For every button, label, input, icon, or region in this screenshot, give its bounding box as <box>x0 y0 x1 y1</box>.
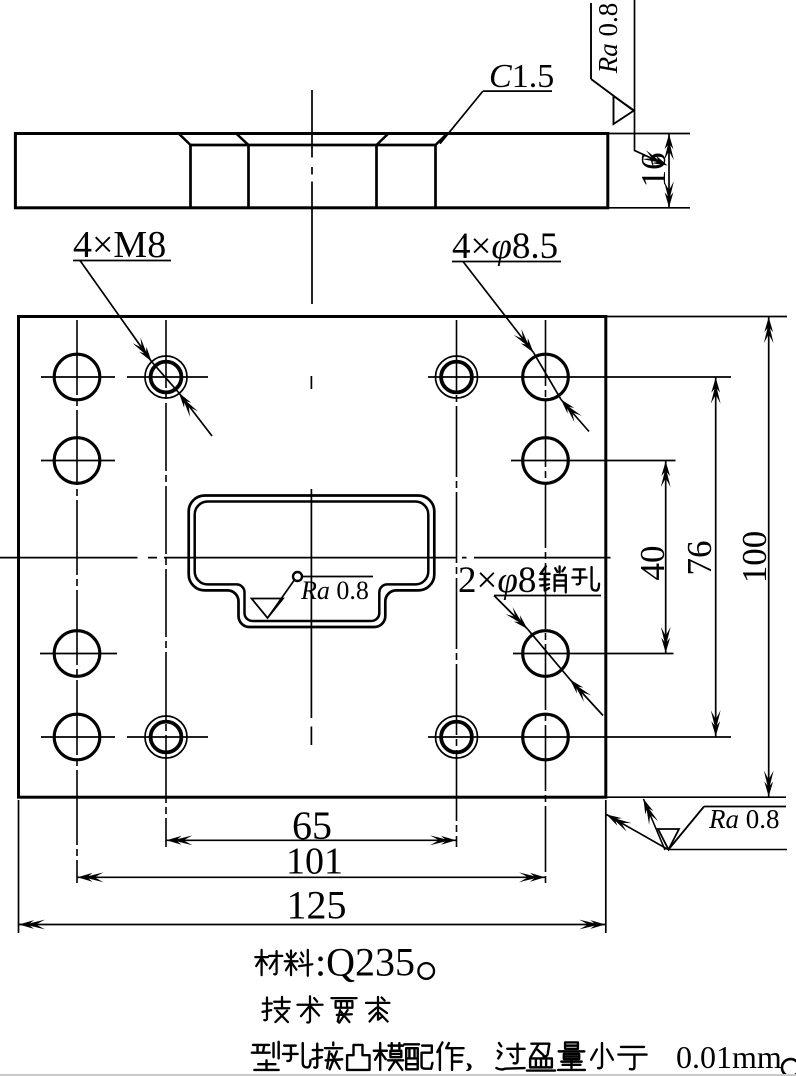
plan view: plate outline <box>19 317 606 798</box>
pin hole top: inner <box>441 362 472 393</box>
shaped hole: inner contour <box>195 502 429 622</box>
dim 16: arrows <box>664 134 674 160</box>
pin label leader segment 2 <box>570 680 603 716</box>
pin hole circle r3c4 <box>523 631 569 677</box>
svg-text:16: 16 <box>634 153 673 188</box>
elevation: chamfer step line <box>189 144 436 147</box>
surface finish top-right: triangle <box>614 96 635 124</box>
surface finish bottom-right: top bar <box>704 806 786 808</box>
4x phi8.5 leader segment 2 <box>561 400 589 432</box>
surface finish inside hole: leg <box>268 581 295 619</box>
plan: vertical centerline <box>310 376 312 745</box>
row centerline 1 right (76 extension) <box>428 376 731 378</box>
elevation: chamfer diagonal 3 <box>377 134 389 145</box>
dim 125: right extension line <box>605 800 607 933</box>
pin hole top: outer <box>436 356 478 398</box>
4xM8 underline <box>73 260 171 262</box>
surface finish bottom-right: leader arrow to bottom face <box>644 799 666 850</box>
column centerline x=456.5 <box>456 320 458 847</box>
svg-text:Ra 0.8: Ra 0.8 <box>708 804 780 834</box>
svg-text:100: 100 <box>735 531 774 584</box>
4xM8 leader segment 1 <box>80 261 152 362</box>
svg-text:0.01mm: 0.01mm <box>676 1039 782 1075</box>
dim 65: dimension line <box>166 839 457 841</box>
svg-text:Ra 0.8: Ra 0.8 <box>300 576 369 605</box>
bolt hole circle r1c4 <box>523 354 569 400</box>
bolt hole circle r3c1 <box>54 631 100 677</box>
pin label leader segment 1 <box>494 596 528 630</box>
pin hole bottom: outer <box>436 716 478 758</box>
bolt hole circle r4c1 <box>54 714 100 760</box>
pin label underline <box>494 595 601 597</box>
dim 125: dimension line <box>19 924 606 926</box>
dim 100: dimension line <box>768 317 770 798</box>
column centerline x=166 <box>165 320 167 847</box>
elevation: notch edge left <box>247 145 250 207</box>
surface finish top-right: diagonal <box>591 79 634 111</box>
elevation: notch edge right <box>375 145 378 207</box>
column centerline x=77 <box>76 320 78 883</box>
M8 thread hole top: inner <box>151 362 182 393</box>
svg-text:125: 125 <box>287 883 347 928</box>
C1.5 underline <box>483 90 552 92</box>
elevation: chamfer diagonal 2 <box>237 134 249 145</box>
M8 thread hole bottom: outer <box>145 716 187 758</box>
svg-text:40: 40 <box>633 546 672 581</box>
surface finish bottom-right: long leg <box>669 807 705 850</box>
elevation: chamfer diagonal 4 (C1.5) <box>436 134 448 145</box>
pin hole label CJK <box>540 566 566 592</box>
bolt hole circle r2c4 <box>523 438 569 484</box>
C1.5 leader <box>440 91 483 144</box>
dim 16: dimension line <box>668 134 670 208</box>
surface finish bottom-right: leader arrow to right face <box>607 815 669 850</box>
note line 1: material <box>255 950 282 975</box>
elevation: hole edge left <box>189 145 192 207</box>
row centerline 4 right (76 extension) <box>428 736 731 738</box>
row centerline 3 right (40 extension) <box>513 653 674 655</box>
shaped hole: outer contour <box>189 496 435 628</box>
column centerline x=545.5 <box>545 320 547 883</box>
dim 101: dimension line <box>77 876 546 878</box>
4x phi8.5 underline <box>452 261 561 263</box>
surface finish top-right: leader line <box>635 0 665 164</box>
elevation: hole edge right <box>434 145 437 207</box>
bottom scan edge <box>0 1074 796 1076</box>
dim 16: extension lines <box>608 134 690 208</box>
surface finish inside hole: triangle <box>252 599 284 619</box>
svg-text:Ra 0.8: Ra 0.8 <box>593 3 623 75</box>
dim 76: dimension line <box>715 377 717 737</box>
dim 125: left extension line <box>18 800 20 933</box>
dim 40: dimension line <box>665 461 667 654</box>
note line 2: technical requirements <box>263 997 290 1022</box>
row centerline 2 right (40 extension) <box>511 460 676 462</box>
row centerline 2 left <box>41 460 115 462</box>
4x phi8.5 leader segment 1 <box>463 262 534 353</box>
bolt hole circle r4c4 <box>523 714 569 760</box>
row centerline 4 left <box>41 736 208 738</box>
bolt hole circle r2c1 <box>54 438 100 484</box>
bolt hole circle r1c1 <box>54 354 100 400</box>
elevation view: plate outline <box>15 134 607 208</box>
surface finish inside hole: top bar <box>302 576 374 578</box>
M8 thread hole bottom: inner <box>151 722 182 753</box>
svg-text:101: 101 <box>286 841 343 883</box>
dim 100: top extension line <box>606 316 787 318</box>
elevation: vertical centerline <box>311 90 313 304</box>
surface finish top-right: leader arrow <box>642 150 670 170</box>
svg-text:C1.5: C1.5 <box>489 58 554 95</box>
surface finish bottom-right: bottom bar <box>669 849 788 851</box>
pin hole bottom: inner <box>441 722 472 753</box>
surface finish bottom-right: triangle <box>658 829 679 850</box>
row centerline 3 left <box>40 653 117 655</box>
M8 thread hole top: outer <box>145 356 187 398</box>
surface finish symbol top-right: flag line <box>590 3 592 79</box>
dim 100: bottom extension line <box>606 796 786 798</box>
4xM8 leader segment 2 <box>179 393 212 436</box>
svg-text:76: 76 <box>680 541 719 576</box>
note line 3: fitting requirement <box>252 1042 279 1070</box>
svg-text::Q235: :Q235 <box>315 940 415 985</box>
plan: horizontal centerline <box>0 557 611 559</box>
elevation: chamfer diagonal 1 <box>179 134 191 145</box>
row centerline 1 left <box>41 376 208 378</box>
surface finish inside hole: circle <box>293 572 302 581</box>
